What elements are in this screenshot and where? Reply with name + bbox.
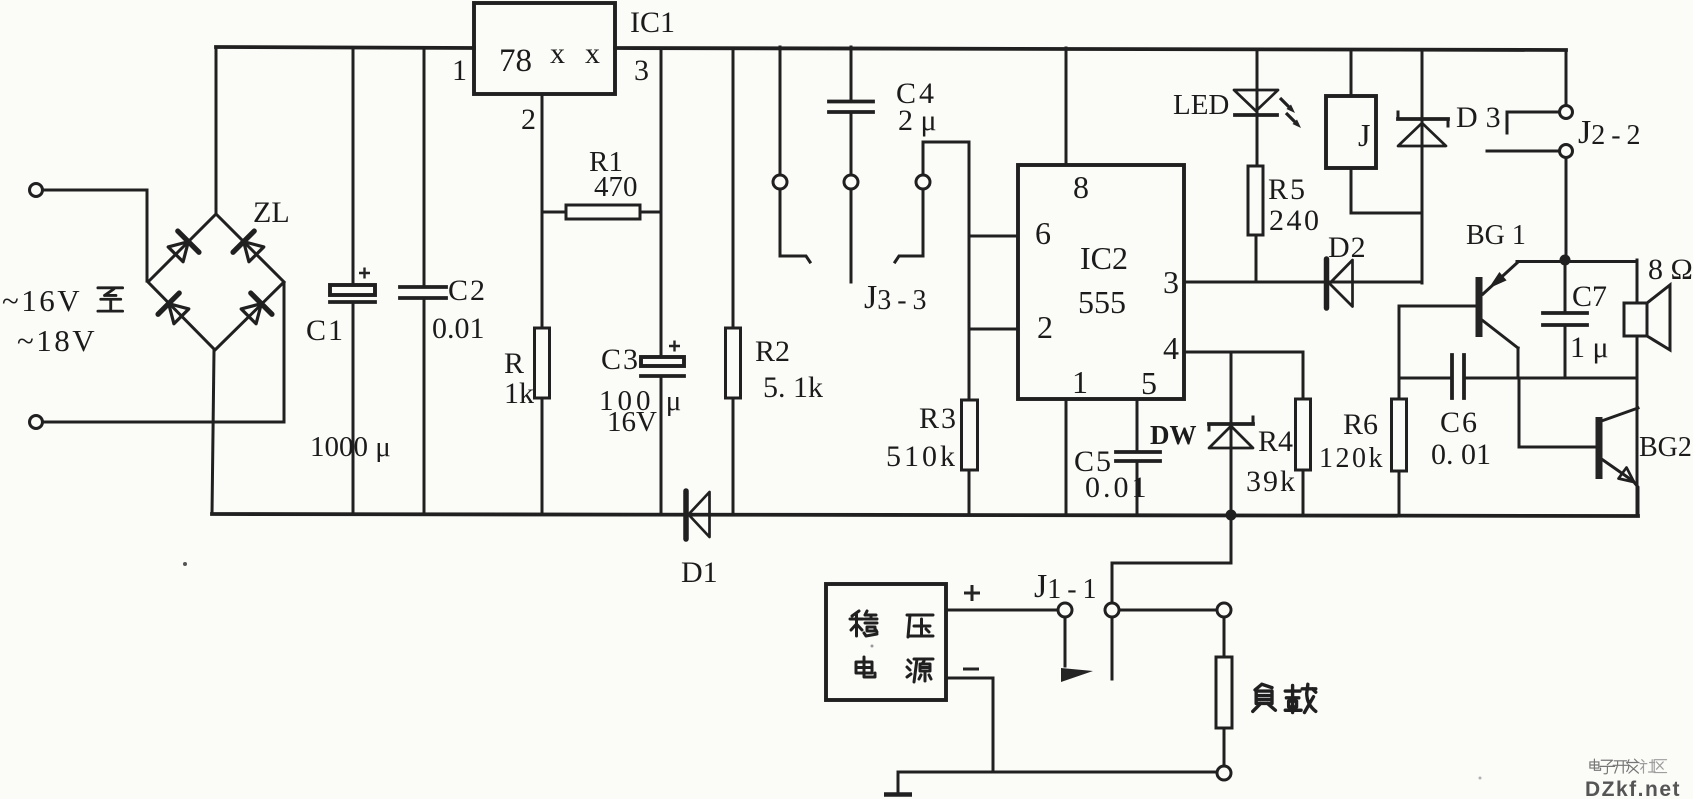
svg-text:1: 1	[1072, 364, 1088, 400]
svg-text:R5: R5	[1268, 173, 1307, 206]
svg-text:x: x	[585, 37, 600, 70]
svg-text:3: 3	[634, 54, 649, 87]
svg-text:~16V: ~16V	[2, 283, 82, 318]
svg-text:0.01: 0.01	[432, 312, 485, 345]
svg-text:5. 1k: 5. 1k	[763, 371, 823, 404]
svg-text:D3: D3	[1456, 101, 1509, 134]
svg-text:555: 555	[1078, 284, 1126, 320]
svg-text:C1: C1	[306, 314, 345, 347]
svg-text:2: 2	[521, 103, 536, 136]
svg-text:x: x	[550, 37, 565, 70]
svg-text:BG 1: BG 1	[1466, 220, 1526, 251]
svg-text:510k: 510k	[886, 440, 958, 473]
svg-text:2: 2	[1037, 309, 1053, 345]
svg-text:C7: C7	[1572, 280, 1607, 313]
svg-text:2 μ: 2 μ	[898, 104, 937, 137]
svg-text:C6: C6	[1440, 406, 1479, 439]
svg-text:IC1: IC1	[630, 6, 675, 39]
svg-text:240: 240	[1269, 204, 1322, 237]
svg-text:1k: 1k	[504, 377, 534, 410]
svg-text:DZkf.net: DZkf.net	[1585, 778, 1681, 799]
svg-text:R4: R4	[1258, 425, 1293, 458]
svg-text:J: J	[1358, 117, 1370, 153]
svg-text:IC2: IC2	[1080, 240, 1128, 276]
svg-text:J1-1: J1-1	[1034, 568, 1103, 605]
svg-text:J2-2: J2-2	[1578, 114, 1647, 151]
svg-text:1: 1	[452, 54, 467, 87]
svg-text:78: 78	[499, 43, 532, 79]
svg-text:120k: 120k	[1319, 443, 1385, 474]
svg-text:~18V: ~18V	[17, 323, 97, 358]
svg-text:1000 μ: 1000 μ	[310, 431, 391, 463]
svg-text:LED: LED	[1173, 89, 1229, 121]
svg-text:R6: R6	[1343, 408, 1378, 441]
svg-text:R: R	[504, 347, 524, 380]
svg-text:39k: 39k	[1246, 465, 1297, 498]
svg-text:8 Ω: 8 Ω	[1648, 253, 1693, 286]
svg-text:1 μ: 1 μ	[1570, 331, 1609, 364]
svg-text:C2: C2	[448, 274, 487, 307]
svg-text:5: 5	[1141, 365, 1157, 401]
svg-text:8: 8	[1073, 169, 1089, 205]
svg-text:R2: R2	[755, 335, 790, 368]
svg-text:16V: 16V	[607, 406, 657, 438]
svg-text:D1: D1	[681, 556, 718, 589]
svg-text:R3: R3	[919, 402, 958, 435]
svg-text:C3: C3	[601, 343, 640, 376]
svg-text:6: 6	[1035, 215, 1051, 251]
svg-text:4: 4	[1163, 330, 1179, 366]
svg-text:0. 01: 0. 01	[1431, 438, 1491, 471]
svg-text:D2: D2	[1328, 231, 1367, 264]
svg-text:DW: DW	[1150, 420, 1197, 450]
svg-text:J3-3: J3-3	[864, 279, 933, 316]
svg-text:0.01: 0.01	[1085, 471, 1150, 504]
svg-text:3: 3	[1163, 264, 1179, 300]
svg-text:ZL: ZL	[253, 196, 290, 229]
svg-text:BG2: BG2	[1639, 432, 1692, 463]
svg-text:470: 470	[594, 171, 638, 203]
